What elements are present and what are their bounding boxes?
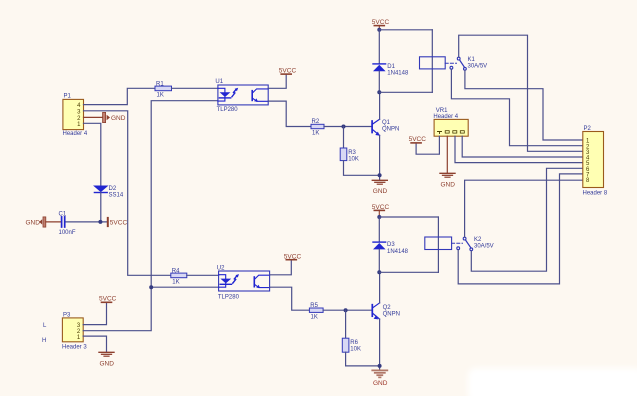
svg-text:K1: K1 <box>468 57 476 63</box>
U1 phototransistor <box>251 91 253 101</box>
LEFT-SECTION <box>26 82 219 368</box>
junction D1/coil-bottom/collector <box>377 90 381 94</box>
ground symbol (Q2) <box>372 370 387 386</box>
svg-text:30A/5V: 30A/5V <box>474 243 494 249</box>
wire U2 collector to 5VCC <box>270 260 292 275</box>
wire VR1 pin2 to GND <box>446 136 448 173</box>
wire D3 top <box>378 217 380 242</box>
diode D1 1N4148 <box>373 64 409 77</box>
wire Q2 emitter down <box>379 319 381 369</box>
wire Q1 collector up <box>379 92 381 119</box>
wire VR1 pin4 to P2 pin4 <box>462 136 583 157</box>
svg-text:10K: 10K <box>348 156 359 162</box>
svg-text:100nF: 100nF <box>59 230 76 236</box>
U1 light arrow <box>232 90 236 97</box>
wire Q2 collector up <box>379 272 381 303</box>
svg-text:5VCC: 5VCC <box>110 219 128 226</box>
junction 5VCC/D1/coil-top <box>377 28 381 32</box>
svg-text:R1: R1 <box>156 82 164 88</box>
svg-text:1K: 1K <box>172 280 179 286</box>
watermark patch <box>468 368 637 396</box>
relay K2 dashed link <box>452 242 463 244</box>
svg-text:Q1: Q1 <box>382 120 391 126</box>
GND port (C1 row) <box>26 217 46 227</box>
svg-text:P2: P2 <box>584 126 592 132</box>
svg-text:GND: GND <box>373 380 388 387</box>
svg-text:GND: GND <box>100 361 115 368</box>
svg-text:P3: P3 <box>63 312 71 318</box>
svg-text:QNPN: QNPN <box>382 127 399 133</box>
wire D1 bottom to junction <box>378 71 380 92</box>
U2 LED <box>219 275 226 279</box>
ground symbol (Q1) <box>372 180 387 195</box>
wire P1 pin2 to GND port <box>84 116 103 118</box>
wire R3 bottom to emitter node <box>344 161 380 176</box>
wire D1 top <box>378 30 380 64</box>
power port 5VCC (U2) <box>284 253 302 260</box>
svg-text:U2: U2 <box>217 265 225 271</box>
wire K2 top contact to P2 pin8 <box>465 180 583 237</box>
wire K1 coil loop bottom <box>379 91 432 93</box>
relay K1 coil <box>420 57 446 69</box>
op-amp U1 optocoupler TLP280 <box>215 79 268 113</box>
U2 light arrow <box>233 276 237 283</box>
wire U1 collector to 5VCC <box>268 74 286 88</box>
wire R6 top branch <box>345 310 347 338</box>
svg-text:D1: D1 <box>387 64 395 70</box>
power port 5VCC (D1 top) <box>372 19 390 30</box>
svg-text:SS14: SS14 <box>109 192 124 198</box>
CENTER-SECTION <box>215 19 409 387</box>
svg-text:5VCC: 5VCC <box>284 253 302 260</box>
wire K2 coil loop bottom <box>379 271 438 273</box>
resistor R1 <box>155 82 172 99</box>
resistor R5 <box>309 303 323 321</box>
svg-text:Header 3: Header 3 <box>62 345 87 351</box>
power port 5VCC (P3) <box>99 296 117 303</box>
wire C1 to 5VCC junction <box>66 221 107 223</box>
svg-text:5VCC: 5VCC <box>99 296 117 303</box>
transistor Q2 QNPN <box>372 303 400 320</box>
resistor R2 <box>311 119 324 136</box>
header VR1 <box>433 108 468 136</box>
svg-text:D3: D3 <box>387 242 395 248</box>
wire VR1 pin1 to 5VCC <box>416 136 439 154</box>
svg-text:10K: 10K <box>350 347 361 353</box>
RIGHT-SECTION <box>379 30 608 284</box>
ground symbol (VR1) <box>440 173 455 188</box>
wire VR1 pin3 to P2 pin5 <box>455 136 583 162</box>
wire D3 bottom to junction <box>378 249 380 272</box>
transistor Q1 QNPN <box>372 119 399 136</box>
svg-text:TLP280: TLP280 <box>218 294 240 300</box>
wire R5 to Q2 base <box>323 309 372 311</box>
header P2 <box>583 126 608 197</box>
junction D3/coil-bottom/collector <box>377 270 381 274</box>
wire K1 arm to P2 pin1 <box>465 71 583 140</box>
junction C1/D2/5VCC <box>98 220 102 224</box>
wire K1 NC contact to P2 pin2 <box>451 70 582 146</box>
svg-text:R3: R3 <box>348 150 356 156</box>
svg-text:VR1: VR1 <box>436 108 448 114</box>
wire K2 arm to P2 pin6 <box>471 168 583 271</box>
wire R3 top branch <box>343 127 345 149</box>
junction opto-cathode node <box>149 285 153 289</box>
svg-text:GND: GND <box>441 181 456 188</box>
U1 LED <box>218 88 225 92</box>
header P3 <box>42 312 87 350</box>
svg-text:R4: R4 <box>172 268 180 274</box>
wire D2 to junction <box>100 193 102 222</box>
power port 5VCC (U1) <box>279 68 297 75</box>
relay K2 contact <box>457 237 494 251</box>
svg-text:Header 4: Header 4 <box>63 131 88 137</box>
wire U1 emitter to R2 <box>268 101 311 126</box>
svg-text:1K: 1K <box>157 93 164 99</box>
relay K2 coil <box>425 237 452 250</box>
wire GND port to C1 <box>46 221 61 223</box>
wire U1 cathode down / U2 cathode net <box>151 101 218 288</box>
GND port (P1 pin2) <box>103 112 126 122</box>
svg-text:R2: R2 <box>312 119 320 125</box>
diode D2 <box>94 186 123 199</box>
wire Q1 emitter down <box>379 135 381 179</box>
wire P1 pin1 down to D2 <box>84 123 101 186</box>
wire R4 to U2 anode <box>187 274 219 276</box>
svg-text:Header 4: Header 4 <box>433 114 458 120</box>
wire P3 pin2 to opto cathode net <box>83 287 151 331</box>
svg-text:GND: GND <box>373 188 388 195</box>
svg-text:GND: GND <box>26 220 41 227</box>
junction R5/R6/base <box>344 308 348 312</box>
wire R2 to Q1 base <box>324 126 372 128</box>
junction 5VCC/D3/coil-top <box>377 215 381 219</box>
header P1 <box>63 94 88 138</box>
resistor R3 <box>340 148 359 162</box>
capacitor C1 <box>59 211 76 236</box>
wire U2 emitter to R5 <box>270 287 310 310</box>
U2 phototransistor <box>253 277 255 287</box>
power port 5VCC (C1 row) <box>107 217 128 227</box>
svg-text:R6: R6 <box>350 340 358 346</box>
wire K2 NC contact to P2 pin7 <box>458 174 583 284</box>
wire K1 coil loop vertical <box>431 30 433 93</box>
relay K1 dashed link <box>445 62 456 64</box>
svg-text:Header 8: Header 8 <box>583 191 608 197</box>
wire R6 bottom to emitter node <box>346 352 380 366</box>
wire R1 to U1 anode <box>172 87 218 89</box>
svg-text:1K: 1K <box>312 131 319 137</box>
resistor R6 <box>342 338 361 352</box>
junction R2/R3/base <box>342 125 346 129</box>
diode D3 1N4148 <box>373 242 409 255</box>
svg-text:D2: D2 <box>109 186 117 192</box>
VR1 pin marks <box>438 132 442 134</box>
resistor R4 <box>171 268 187 285</box>
svg-text:5VCC: 5VCC <box>372 19 390 26</box>
ground symbol (P3) <box>99 352 114 367</box>
svg-text:QNPN: QNPN <box>383 312 400 318</box>
svg-text:1K: 1K <box>311 314 318 320</box>
op-amp U2 optocoupler TLP280 <box>217 265 270 300</box>
svg-text:H: H <box>42 338 46 344</box>
junction emitter/R6/GND <box>378 364 382 368</box>
svg-text:K2: K2 <box>474 237 482 243</box>
svg-text:C1: C1 <box>59 211 67 217</box>
junction emitter/R3/GND <box>378 173 382 177</box>
wire P1 pin3 down to R4 <box>84 111 171 275</box>
wire P1 pin4 to R1 <box>84 88 156 104</box>
svg-text:TLP280: TLP280 <box>217 107 239 113</box>
wire K1 coil loop top <box>379 29 432 31</box>
wire K2 coil loop vertical <box>437 217 439 272</box>
svg-text:Q2: Q2 <box>383 305 392 311</box>
svg-text:30A/5V: 30A/5V <box>468 63 488 69</box>
power port 5VCC (VR1) <box>409 136 427 143</box>
wire P3 pin1 to GND <box>83 336 106 352</box>
svg-text:P1: P1 <box>64 94 72 100</box>
svg-text:GND: GND <box>111 115 126 122</box>
svg-text:1N4148: 1N4148 <box>387 249 409 255</box>
svg-text:1N4148: 1N4148 <box>387 71 409 77</box>
svg-text:5VCC: 5VCC <box>409 136 427 143</box>
wire P3 pin3 to 5VCC <box>83 303 106 325</box>
wire K2 coil loop top <box>379 216 438 218</box>
svg-text:R5: R5 <box>310 303 318 309</box>
wire K1 top contact to P2 pin3 <box>459 35 583 151</box>
relay K1 contact <box>450 57 487 70</box>
power port 5VCC (D3 top) <box>372 204 390 217</box>
svg-text:U1: U1 <box>215 79 223 85</box>
svg-text:5VCC: 5VCC <box>279 68 297 75</box>
svg-text:5VCC: 5VCC <box>372 204 390 211</box>
wire to U2 cathode <box>151 286 218 288</box>
